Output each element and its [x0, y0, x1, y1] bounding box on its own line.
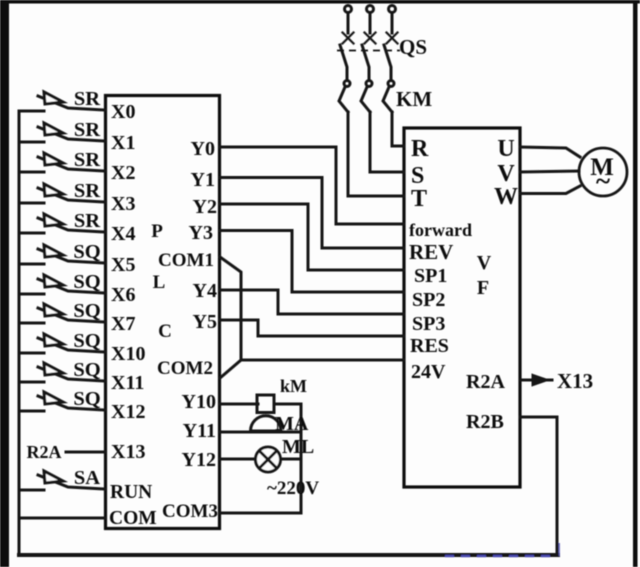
- svg-text:R2B: R2B: [466, 411, 504, 433]
- wire COM link to 24V: [241, 359, 404, 362]
- switch SR1 (X0): [19, 92, 105, 111]
- KM contact circle phase L2: [366, 81, 372, 87]
- svg-text:SP2: SP2: [412, 289, 445, 311]
- wire V to motor: [520, 171, 579, 172]
- KM blade phase L3: [383, 87, 392, 112]
- wire R2A to X13: [66, 451, 105, 454]
- switch SQ1 (X5): [19, 245, 105, 264]
- KM contact circle phase L3: [388, 81, 394, 87]
- svg-text:X13: X13: [111, 441, 145, 463]
- border right bar: [633, 0, 638, 567]
- svg-text:COM1: COM1: [158, 250, 214, 271]
- svg-text:SQ: SQ: [73, 300, 100, 322]
- QS blade phase L2: [362, 45, 369, 80]
- svg-text:X1: X1: [111, 132, 135, 154]
- svg-text:Y2: Y2: [193, 196, 217, 218]
- svg-text:24V: 24V: [411, 361, 446, 383]
- switch SQ4 (X10): [19, 334, 105, 353]
- alarm bell MA: [251, 416, 282, 431]
- wire phase L3 to R: [392, 112, 404, 146]
- wire Y5 to RES: [220, 320, 404, 336]
- wire coil to 220V bus: [274, 403, 301, 406]
- bottom return wire: [19, 553, 558, 557]
- svg-text:X2: X2: [111, 162, 135, 184]
- svg-text:SR: SR: [74, 119, 100, 141]
- left common bus wire: [18, 111, 21, 555]
- border left bar: [0, 0, 9, 567]
- PLC box: [106, 96, 220, 529]
- wire Y2 to SP1: [220, 204, 404, 270]
- svg-text:Y1: Y1: [191, 169, 215, 191]
- svg-text:SQ: SQ: [73, 330, 100, 352]
- svg-text:SQ: SQ: [73, 241, 100, 263]
- wire R2A arrow to X13: [521, 376, 552, 385]
- wire COM1 to COM2 link: [220, 257, 241, 378]
- svg-text:RUN: RUN: [110, 482, 152, 503]
- svg-text:SA: SA: [74, 467, 100, 489]
- contactor coil kM: [257, 395, 274, 413]
- QS linkage dashed line: [337, 50, 400, 52]
- phase L1 fuse X mark: [343, 33, 354, 44]
- svg-text:X10: X10: [111, 343, 145, 365]
- svg-text:COM2: COM2: [157, 358, 213, 379]
- svg-text:ML: ML: [282, 436, 314, 458]
- wire COM to bus: [19, 517, 105, 520]
- wire Y11 to alarm: [220, 431, 301, 434]
- svg-text:X7: X7: [111, 313, 135, 335]
- svg-text:T: T: [411, 186, 427, 212]
- motor M1: [579, 148, 627, 196]
- KM contact circle phase L1: [344, 81, 350, 87]
- wire U to motor: [520, 147, 580, 157]
- svg-text:RES: RES: [410, 335, 449, 357]
- phase L1 terminal: [345, 6, 352, 34]
- border top bar: [0, 0, 640, 4]
- switch SR5 (X4): [19, 214, 105, 233]
- svg-text:X11: X11: [111, 372, 144, 394]
- QS blade phase L3: [384, 45, 391, 80]
- wire W to motor: [520, 186, 580, 194]
- svg-text:Y5: Y5: [193, 311, 217, 333]
- svg-text:R2A: R2A: [466, 371, 505, 393]
- svg-text:U: U: [497, 136, 514, 162]
- svg-text:SR: SR: [74, 149, 100, 171]
- svg-text:~220V: ~220V: [267, 478, 319, 499]
- svg-text:kM: kM: [280, 376, 307, 396]
- svg-text:REV: REV: [409, 240, 453, 264]
- svg-text:SQ: SQ: [73, 359, 100, 381]
- svg-text:V: V: [477, 252, 492, 274]
- phase L2 terminal: [367, 6, 374, 34]
- phase L3 fuse X mark: [387, 33, 398, 44]
- svg-text:SQ: SQ: [73, 388, 100, 410]
- wire COM3: [220, 512, 301, 515]
- wire Y12 to lamp: [220, 458, 301, 461]
- lamp ML: [256, 447, 281, 472]
- svg-text:SR: SR: [74, 88, 100, 110]
- svg-text:SP1: SP1: [414, 265, 447, 287]
- svg-text:X12: X12: [111, 401, 145, 423]
- svg-text:KM: KM: [396, 87, 432, 111]
- svg-text:SR: SR: [74, 210, 100, 232]
- svg-text:Y10: Y10: [182, 391, 216, 413]
- svg-text:Y4: Y4: [193, 280, 217, 302]
- wire Y4 to SP3: [220, 290, 404, 314]
- switch SQ5 (X11): [19, 363, 105, 382]
- svg-text:X6: X6: [111, 284, 135, 306]
- svg-text:~: ~: [596, 166, 610, 196]
- svg-text:X4: X4: [111, 223, 135, 245]
- wire phase L1 to T: [348, 112, 404, 196]
- wire Y0 to forward: [220, 147, 404, 224]
- svg-text:SQ: SQ: [73, 271, 100, 293]
- svg-text:QS: QS: [399, 35, 427, 59]
- svg-text:COM3: COM3: [162, 501, 218, 522]
- svg-text:F: F: [477, 277, 489, 299]
- KM blade phase L2: [361, 87, 370, 112]
- svg-text:Y11: Y11: [183, 420, 216, 442]
- svg-text:L: L: [153, 272, 166, 293]
- phase L2 fuse X mark: [365, 33, 376, 44]
- wire Y3 to SP2: [220, 231, 404, 293]
- svg-text:X5: X5: [111, 254, 135, 276]
- svg-text:SP3: SP3: [412, 313, 445, 335]
- svg-text:Y0: Y0: [191, 138, 215, 160]
- svg-text:C: C: [158, 321, 172, 342]
- svg-text:X3: X3: [111, 193, 135, 215]
- svg-text:Y3: Y3: [189, 222, 213, 244]
- svg-text:COM: COM: [109, 508, 157, 529]
- svg-text:P: P: [151, 221, 163, 242]
- wire phase L2 to S: [370, 112, 404, 172]
- blue artifact dashes on bottom wire: [445, 555, 557, 557]
- switch SQ3 (X7): [19, 304, 105, 323]
- wire R2B return: [520, 417, 557, 555]
- svg-text:X0: X0: [111, 101, 135, 123]
- svg-text:MA: MA: [275, 413, 309, 435]
- svg-text:R: R: [411, 136, 429, 162]
- switch SA (RUN): [19, 471, 105, 490]
- wire Y10 to coil: [220, 403, 258, 406]
- switch SQ6 (X12): [19, 392, 105, 411]
- 220V bus vertical wire: [300, 404, 303, 513]
- QS blade phase L1: [340, 45, 347, 80]
- svg-text:SR: SR: [74, 180, 100, 202]
- phase L3 terminal: [389, 6, 396, 34]
- switch SR4 (X3): [19, 184, 105, 203]
- svg-text:forward: forward: [409, 220, 472, 240]
- svg-text:Y12: Y12: [182, 449, 216, 471]
- svg-text:W: W: [494, 184, 518, 210]
- svg-text:R2A: R2A: [27, 442, 62, 462]
- KM blade phase L1: [339, 87, 348, 112]
- switch SQ2 (X6): [19, 275, 105, 294]
- wire Y1 to REV: [220, 178, 404, 249]
- svg-text:X13: X13: [557, 369, 593, 393]
- inverter box U2: [404, 128, 520, 487]
- switch SR3 (X2): [19, 153, 105, 172]
- switch SR2 (X1): [19, 123, 105, 142]
